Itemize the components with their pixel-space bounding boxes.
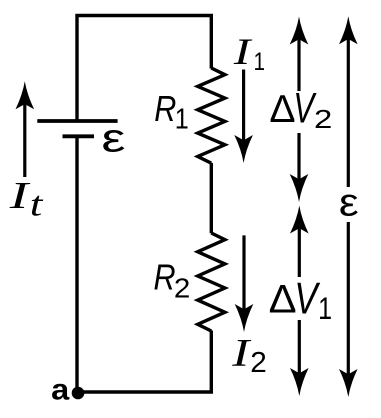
- svg-text:a: a: [51, 373, 70, 406]
- svg-text:t: t: [30, 185, 43, 224]
- wire: segment between R1 and R2: [210, 163, 213, 233]
- emf label epsilon: [339, 180, 359, 224]
- svg-text:Δ: Δ: [269, 88, 295, 131]
- svg-text:1: 1: [175, 103, 189, 135]
- wire: bottom wire from node a to R2 branch: [77, 331, 211, 393]
- resistor R1: [198, 68, 225, 163]
- emf arrow epsilon (double-headed, full height): [347, 39, 350, 187]
- svg-text:I: I: [233, 32, 253, 73]
- battery value label epsilon: [101, 116, 125, 161]
- label I1: [233, 32, 253, 73]
- svg-text:2: 2: [174, 273, 190, 304]
- wire: from battery top up, across top, down to R1: [77, 16, 211, 123]
- battery B1 long plate: [37, 119, 117, 123]
- svg-text:2: 2: [250, 346, 267, 379]
- voltage arrow dV2 (double-headed): [297, 39, 300, 91]
- svg-text:R: R: [154, 89, 176, 129]
- svg-text:ε: ε: [101, 116, 125, 161]
- svg-text:V: V: [294, 274, 320, 323]
- label dV2: [269, 88, 295, 131]
- current arrow I1 (downward): [242, 70, 245, 141]
- svg-text:2: 2: [314, 105, 332, 134]
- svg-text:ε: ε: [339, 180, 359, 224]
- label dV1: [269, 276, 297, 321]
- current arrow I2 (downward): [242, 235, 245, 309]
- wire: left wire below battery down to node a: [75, 136, 78, 392]
- label I2: [231, 331, 251, 374]
- svg-text:Δ: Δ: [269, 276, 297, 321]
- battery B1 short plate: [63, 134, 95, 138]
- svg-text:1: 1: [318, 292, 332, 327]
- node a label: [51, 373, 70, 406]
- label R1: [154, 89, 176, 129]
- label R2: [153, 258, 175, 298]
- voltage arrow dV1 (double-headed): [298, 228, 301, 277]
- current arrow It (upward): [23, 104, 26, 178]
- label It: [9, 175, 31, 217]
- svg-text:I: I: [231, 331, 251, 374]
- resistor R2: [198, 233, 225, 331]
- svg-text:I: I: [9, 175, 31, 217]
- node a junction dot: [72, 387, 85, 400]
- svg-text:R: R: [153, 258, 175, 298]
- svg-text:1: 1: [253, 47, 265, 75]
